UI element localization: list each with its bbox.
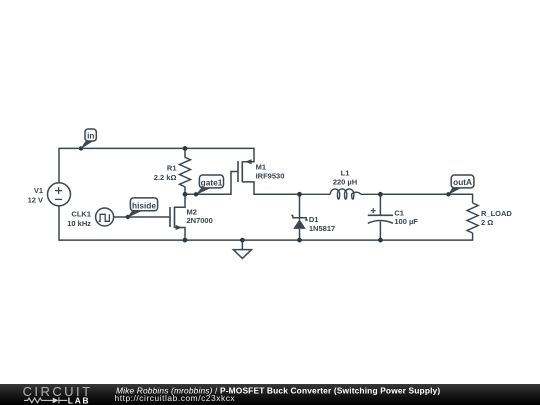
circuitlab logo diode triangle	[53, 398, 59, 404]
wire V1 bottom / bottom rail / R_LOAD bottom lead	[59, 206, 473, 240]
wire mid rail right of L1 / R_LOAD top lead	[380, 194, 472, 203]
junction dot M2 source	[183, 238, 188, 243]
svg-text:100 µF: 100 µF	[394, 217, 418, 226]
svg-text:M2: M2	[187, 208, 197, 217]
wire V1 top / top rail / M1 source lead	[59, 148, 254, 183]
label R1 value	[154, 164, 177, 183]
M2 source arrow	[176, 225, 183, 230]
svg-text:2.2 kΩ: 2.2 kΩ	[154, 173, 177, 182]
svg-text:L1: L1	[341, 168, 350, 177]
junction dot R1 bottom / M2 drain	[183, 192, 188, 197]
junction dot C1 bottom	[378, 238, 383, 243]
svg-text:12 V: 12 V	[28, 196, 43, 205]
footer bar	[0, 384, 540, 405]
svg-text:IRF9530: IRF9530	[256, 171, 285, 180]
label D1 value	[309, 215, 335, 233]
junction dot C1 top	[378, 192, 383, 197]
svg-text:http://circuitlab.com/c23xkcx: http://circuitlab.com/c23xkcx	[115, 393, 236, 403]
circuitlab logo resistor-diode glyph	[24, 397, 67, 403]
transistor M2 2N7000	[170, 194, 185, 240]
label CLK1 value	[67, 209, 91, 228]
svg-text:in: in	[87, 131, 94, 141]
svg-text:10 kHz: 10 kHz	[67, 219, 91, 228]
svg-text:gate1: gate1	[201, 177, 223, 187]
junction dot gate1 flag	[194, 192, 198, 196]
svg-text:2 Ω: 2 Ω	[481, 218, 493, 227]
wire R1 bottom lead	[184, 187, 186, 195]
wire gate1 node to M1 gate	[185, 172, 238, 195]
junction dot ground	[240, 238, 245, 243]
diode D1 1N5817 schottky	[291, 194, 307, 240]
junction dot R1 top	[183, 146, 188, 151]
svg-text:2N7000: 2N7000	[187, 216, 213, 225]
node flag gate1	[196, 175, 224, 195]
svg-text:R_LOAD: R_LOAD	[481, 209, 512, 218]
svg-text:M1: M1	[256, 163, 266, 172]
resistor R_LOAD	[467, 203, 478, 233]
label M2 value	[187, 208, 213, 226]
junction dot in-flag	[79, 146, 83, 150]
svg-text:LAB: LAB	[68, 396, 91, 405]
wire CLK1 to M2 gate	[114, 216, 170, 218]
svg-text:CLK1: CLK1	[71, 209, 91, 218]
capacitor C1	[368, 194, 393, 240]
D1 triangle	[293, 219, 306, 229]
svg-text:hiside: hiside	[132, 200, 156, 210]
svg-text:V1: V1	[34, 186, 43, 195]
transistor M1 IRF9530	[238, 161, 242, 182]
wire M1 drain / mid rail left of L1	[242, 182, 299, 194]
resistor R1	[180, 157, 191, 187]
junction dot outA flag	[446, 192, 450, 196]
label L1 value	[333, 168, 357, 186]
M1 source arrow	[245, 159, 252, 164]
inductor L1	[300, 189, 381, 199]
junction dot hiside flag	[126, 215, 130, 219]
voltage source V1	[48, 183, 71, 206]
ground	[233, 240, 251, 258]
node flag in	[81, 129, 97, 149]
svg-text:D1: D1	[309, 215, 319, 224]
clock source CLK1	[96, 208, 114, 226]
svg-text:outA: outA	[453, 177, 472, 187]
label M1 value	[256, 163, 285, 181]
wire R1 top lead	[184, 148, 186, 157]
svg-text:C1: C1	[394, 208, 404, 217]
svg-text:R1: R1	[167, 164, 177, 173]
label R_LOAD value	[481, 209, 512, 227]
node flag outA	[448, 175, 474, 195]
label V1 value	[28, 186, 43, 205]
svg-text:220 µH: 220 µH	[333, 178, 357, 187]
node flag hiside	[127, 198, 157, 218]
junction dot D1 top	[297, 192, 302, 197]
svg-text:1N5817: 1N5817	[309, 224, 335, 233]
label C1 value	[394, 208, 418, 226]
junction dot D1 bottom	[297, 238, 302, 243]
